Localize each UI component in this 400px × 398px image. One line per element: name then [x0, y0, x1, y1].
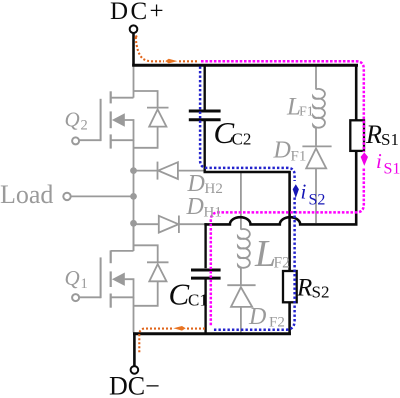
- transistor Q2: [79, 66, 133, 149]
- wire DC+ drop: [132, 33, 135, 66]
- blue arrow down: [293, 184, 299, 198]
- orange path top dots after arrow: [179, 60, 198, 62]
- DC- terminal: [131, 366, 139, 374]
- wire CC2 top: [203, 65, 205, 110]
- svg-text:C: C: [169, 277, 190, 312]
- node load junction dot: [130, 193, 137, 200]
- DC+ terminal: [130, 25, 138, 33]
- svg-text:D: D: [186, 194, 204, 220]
- diode DF2: [227, 285, 255, 332]
- load lead: [71, 195, 133, 197]
- Q2 gate lead: [79, 139, 100, 141]
- orange path bottom: [187, 328, 207, 330]
- diode DH2: [134, 162, 205, 180]
- diode DH1: [134, 216, 206, 234]
- wire CC1 top: [204, 223, 206, 268]
- wire bottom rail: [133, 332, 291, 335]
- svg-text:Load: Load: [0, 180, 53, 209]
- node phase column: [133, 140, 135, 251]
- Q2 body lead: [111, 120, 134, 140]
- wire CC2 bottom: [203, 121, 205, 173]
- Q2 drain lead: [111, 97, 134, 99]
- diode DF1: [302, 146, 331, 223]
- orange path top: [136, 37, 164, 61]
- node B junction dot: [130, 220, 137, 227]
- resistor RS2: [283, 271, 297, 302]
- body arrow Q1: [112, 273, 125, 286]
- Q2 gate terminal: [72, 137, 79, 144]
- Q2 diode cathode bar: [147, 107, 169, 109]
- svg-text:C1: C1: [188, 291, 208, 310]
- svg-text:Q: Q: [65, 108, 80, 132]
- wire top rail: [132, 64, 358, 67]
- orange start dot: [135, 35, 137, 37]
- svg-text:S1: S1: [381, 130, 399, 149]
- capacitor CC2: [189, 111, 221, 120]
- svg-text:Q: Q: [65, 266, 80, 290]
- svg-text:DC+: DC+: [110, 0, 166, 25]
- orange arrow right: [165, 59, 177, 64]
- svg-text:D: D: [248, 304, 266, 330]
- svg-text:F1: F1: [291, 149, 307, 165]
- svg-text:R: R: [296, 275, 312, 302]
- node A junction dot: [130, 167, 137, 174]
- Q1 gate terminal: [72, 294, 79, 301]
- wire mid2 with hops: [204, 151, 356, 225]
- magenta arrow down: [361, 152, 368, 166]
- wire RS1 top: [355, 65, 358, 120]
- inductor LF1: [313, 66, 325, 146]
- diode body Q1: [134, 245, 169, 305]
- svg-text:S2: S2: [312, 283, 330, 302]
- svg-text:C2: C2: [232, 129, 252, 148]
- svg-text:i: i: [301, 180, 307, 204]
- magenta path iS1 loop: [201, 61, 364, 152]
- wire RS2 bottom: [288, 302, 291, 335]
- svg-text:F2: F2: [274, 254, 290, 271]
- svg-text:i: i: [376, 149, 382, 173]
- svg-text:S1: S1: [384, 160, 400, 177]
- svg-text:H1: H1: [204, 205, 222, 221]
- Q1 source vertical: [133, 297, 135, 332]
- wire mid1: [204, 172, 290, 271]
- Q2 gate bar: [100, 99, 102, 141]
- inductor LF2: [238, 173, 250, 285]
- transistor Q1: [79, 223, 133, 307]
- svg-text:H2: H2: [205, 181, 223, 197]
- Q2 channel segments: [110, 91, 112, 103]
- wire Q2 diode anode: [134, 91, 158, 107]
- wire DC- drop: [133, 332, 136, 366]
- resistor RS1: [350, 120, 364, 151]
- svg-text:DC−: DC−: [109, 372, 160, 398]
- svg-text:2: 2: [81, 118, 88, 134]
- orange arrow left: [173, 326, 185, 331]
- svg-text:F1: F1: [299, 105, 314, 120]
- Q2 drain vertical: [133, 66, 135, 98]
- Q1 drain lead: [111, 250, 134, 252]
- Load terminal: [63, 193, 70, 200]
- diode body Q2: [134, 91, 169, 148]
- wire CC1 bottom: [204, 279, 206, 334]
- svg-text:1: 1: [81, 276, 88, 292]
- body arrow Q2: [112, 113, 125, 126]
- svg-text:R: R: [365, 120, 382, 149]
- blue path iS2 loop: [200, 67, 295, 182]
- Q1 body lead: [111, 279, 134, 297]
- svg-text:D: D: [273, 138, 291, 164]
- capacitor CC1: [191, 270, 221, 278]
- svg-text:F2: F2: [269, 315, 285, 331]
- svg-text:S2: S2: [309, 192, 326, 209]
